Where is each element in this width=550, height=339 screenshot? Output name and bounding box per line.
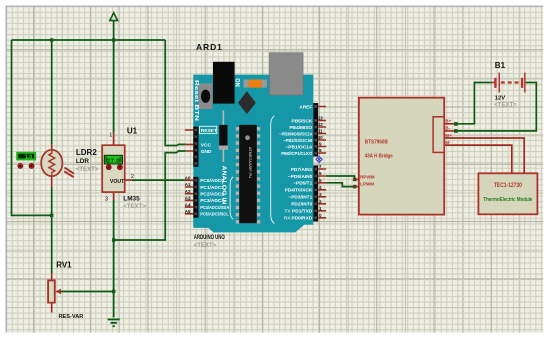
blue marker	[316, 156, 322, 162]
svg-text:43A H Bridge: 43A H Bridge	[365, 154, 393, 160]
svg-text:LM35: LM35	[123, 195, 140, 202]
svg-text:PC3/ADC3: PC3/ADC3	[200, 198, 224, 204]
pin stubs left	[185, 130, 194, 214]
svg-text:PC2/ADC2: PC2/ADC2	[200, 192, 224, 198]
wire PD6 to RPWM	[326, 176, 355, 179]
label Reset BTN	[193, 80, 199, 121]
svg-text:Reset BTN: Reset BTN	[193, 80, 199, 121]
arduino pin labels left	[200, 126, 230, 217]
silkscreen arcs	[230, 116, 274, 224]
svg-text:3: 3	[105, 196, 108, 202]
LDR2 down button	[29, 163, 34, 168]
wire LDR bottom to RV1	[51, 187, 53, 274]
svg-text:RESET: RESET	[201, 128, 217, 134]
svg-text:TX: TX	[284, 209, 291, 215]
svg-text:RES-VAR: RES-VAR	[59, 314, 84, 320]
svg-text:ATMEGA328P-PU: ATMEGA328P-PU	[248, 147, 252, 178]
svg-text:A5: A5	[185, 209, 191, 214]
resistor RV1	[48, 261, 83, 321]
thermoelectric module TEC1-12730	[478, 173, 537, 214]
svg-text:ARDUINO UNO: ARDUINO UNO	[194, 235, 225, 241]
arduino left power header	[193, 127, 198, 167]
wire rail to arduino VCC	[165, 40, 186, 146]
arduino right lower header	[313, 165, 318, 221]
wire power rail	[12, 39, 166, 41]
svg-text:B+: B+	[445, 119, 451, 124]
wire M+ to TEC	[444, 138, 524, 173]
svg-text:RV1: RV1	[56, 261, 72, 270]
svg-text:PD1/TXD: PD1/TXD	[292, 209, 313, 215]
svg-text:ThermoElectric Module: ThermoElectric Module	[483, 197, 532, 203]
svg-text:27.0: 27.0	[107, 158, 121, 165]
svg-text:PD2/INT0: PD2/INT0	[291, 202, 312, 208]
svg-text:VCC: VCC	[201, 143, 212, 149]
LM35 temperature display	[104, 155, 122, 165]
wire B- to battery	[456, 83, 537, 131]
svg-text:RX: RX	[284, 216, 291, 222]
svg-text:A4: A4	[185, 202, 191, 207]
svg-text:1: 1	[109, 133, 112, 139]
svg-text:13: 13	[318, 116, 323, 121]
svg-text:BTS7960B: BTS7960B	[365, 140, 388, 146]
svg-text:~PD5/T1: ~PD5/T1	[293, 181, 312, 187]
svg-text:TEC1-12730: TEC1-12730	[494, 183, 523, 189]
svg-text:PC1/ADC1: PC1/ADC1	[200, 185, 224, 191]
svg-text:A3: A3	[185, 196, 191, 201]
arduino power LED	[244, 80, 267, 88]
arduino reset button	[199, 84, 213, 110]
svg-text:M+: M+	[445, 133, 452, 138]
svg-text:PB5/SCK: PB5/SCK	[292, 118, 313, 124]
svg-text:<TEXT>: <TEXT>	[123, 204, 146, 210]
arduino power jack	[213, 62, 235, 104]
power symbol (+V arrow)	[110, 13, 118, 40]
wire rail to LM35 pin1	[113, 40, 115, 133]
label ANALOG IN	[221, 166, 227, 205]
ground	[108, 319, 120, 326]
svg-text:AREF: AREF	[299, 104, 312, 110]
svg-text:GND: GND	[201, 149, 212, 155]
arduino ARD1 board	[193, 42, 313, 249]
svg-text:~PD3/INT1: ~PD3/INT1	[288, 195, 312, 201]
svg-text:PD4/T0/XCK: PD4/T0/XCK	[285, 188, 313, 194]
svg-text:VOUT: VOUT	[110, 179, 125, 185]
h-bridge module BTS7960B	[353, 98, 454, 215]
svg-text:PC4/ADC4/SDA: PC4/ADC4/SDA	[200, 205, 229, 211]
svg-text:12: 12	[318, 122, 323, 127]
ATmega328 chip U-chip	[236, 125, 260, 224]
battery B1	[491, 61, 526, 109]
svg-text:PD7/AIN1: PD7/AIN1	[291, 167, 313, 173]
svg-text:RPWM: RPWM	[360, 174, 375, 179]
svg-text:LPWM: LPWM	[360, 182, 374, 187]
wire M- to TEC	[444, 145, 512, 173]
arduino pin labels right	[279, 104, 313, 221]
svg-text:U1: U1	[127, 127, 138, 136]
svg-text:10: 10	[318, 135, 323, 140]
arduino analog header	[193, 177, 198, 218]
arduino capacitor part	[219, 111, 228, 163]
label ON	[234, 78, 240, 87]
LM35 down button	[117, 165, 122, 170]
svg-text:PD0/RXD: PD0/RXD	[292, 216, 313, 222]
svg-text:PC5/ADC5/SCL: PC5/ADC5/SCL	[200, 212, 229, 218]
LDR LDR2	[41, 144, 99, 187]
svg-text:A1: A1	[185, 182, 191, 187]
arduino diamond logo	[238, 91, 256, 114]
svg-text:A2: A2	[185, 189, 191, 194]
LM35 up button	[106, 165, 111, 170]
wire PD5 to LPWM	[326, 183, 355, 187]
svg-text:1.0: 1.0	[25, 155, 33, 161]
arduino pin numbers	[185, 116, 324, 218]
svg-text:LDR2: LDR2	[76, 148, 97, 157]
LM35 U1	[102, 127, 146, 210]
wire RV1 wiper to ground net	[61, 291, 114, 293]
wire LM35 pin3 to ground	[113, 200, 115, 317]
svg-text:11: 11	[318, 129, 323, 134]
svg-text:~PB2/SS/OC1B: ~PB2/SS/OC1B	[283, 138, 312, 144]
LDR2 light-level display	[17, 153, 35, 161]
LDR2 up button	[18, 163, 23, 168]
svg-text:LDR: LDR	[76, 158, 90, 165]
svg-text:ON: ON	[234, 78, 240, 87]
svg-text:B-: B-	[445, 126, 450, 131]
arduino right upper header	[313, 103, 318, 157]
svg-text:12V: 12V	[495, 96, 505, 102]
svg-text:PB4/MISO: PB4/MISO	[289, 125, 312, 131]
wire rail to LDR bottom node	[12, 40, 52, 215]
svg-text:PC0/ADC0: PC0/ADC0	[200, 178, 224, 184]
svg-text:<TEXT>: <TEXT>	[76, 167, 99, 173]
svg-text:~PD6/AIN0: ~PD6/AIN0	[288, 174, 313, 180]
wire arduino GND to ground net	[114, 151, 186, 240]
svg-text:B1: B1	[495, 61, 506, 70]
arduino usb connector	[270, 53, 304, 95]
wire LM35 VOUT to A0	[132, 179, 185, 181]
svg-text:<TEXT>: <TEXT>	[194, 243, 217, 249]
svg-text:~PB3/MOSI/OC2A: ~PB3/MOSI/OC2A	[279, 131, 312, 137]
wire rail to LDR top	[51, 40, 53, 144]
svg-text:<TEXT>: <TEXT>	[494, 103, 517, 109]
svg-text:PB0/ICP1/CLKO: PB0/ICP1/CLKO	[281, 151, 312, 157]
pin stubs right	[318, 107, 326, 218]
svg-text:M-: M-	[445, 140, 451, 145]
svg-text:A0: A0	[185, 176, 191, 181]
wire B+ to battery	[456, 83, 491, 124]
svg-text:2: 2	[131, 174, 134, 180]
svg-text:ARD1: ARD1	[196, 42, 223, 52]
svg-text:~PB1/OC1A: ~PB1/OC1A	[286, 144, 313, 150]
